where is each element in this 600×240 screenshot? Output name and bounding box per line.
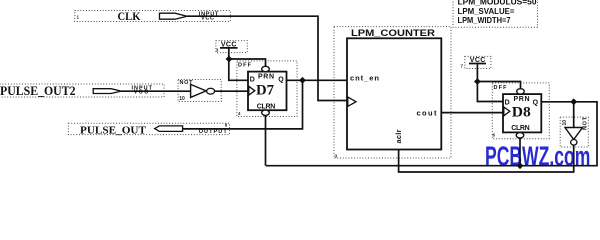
- svg-text:VCC: VCC: [201, 16, 214, 22]
- svg-text:D: D: [505, 99, 510, 106]
- svg-text:PULSE_OUT2: PULSE_OUT2: [0, 83, 76, 98]
- svg-text:D8: D8: [512, 105, 531, 121]
- svg-text:PRN: PRN: [514, 96, 530, 103]
- svg-text:cnt_en: cnt_en: [350, 73, 379, 82]
- svg-text:Q: Q: [278, 76, 284, 83]
- svg-text:DFF: DFF: [494, 85, 508, 91]
- svg-text:D: D: [250, 76, 255, 83]
- svg-text:NOT: NOT: [583, 116, 589, 130]
- svg-text:PULSE_OUT: PULSE_OUT: [80, 125, 146, 136]
- svg-text:DFF: DFF: [238, 63, 252, 69]
- svg-text:CLRN: CLRN: [511, 125, 530, 132]
- svg-text:aclr: aclr: [394, 129, 403, 143]
- svg-text:LPM_WIDTH=7: LPM_WIDTH=7: [458, 15, 511, 25]
- svg-text:10: 10: [562, 120, 568, 126]
- svg-text:D7: D7: [256, 82, 274, 98]
- svg-text:CLRN: CLRN: [257, 103, 276, 110]
- svg-text:CLK: CLK: [118, 9, 142, 23]
- svg-text:Q: Q: [533, 99, 539, 106]
- svg-text:10: 10: [179, 96, 185, 102]
- svg-text:LPM_COUNTER: LPM_COUNTER: [351, 28, 435, 39]
- svg-text:PRN: PRN: [258, 74, 274, 81]
- svg-text:VCC: VCC: [134, 90, 149, 96]
